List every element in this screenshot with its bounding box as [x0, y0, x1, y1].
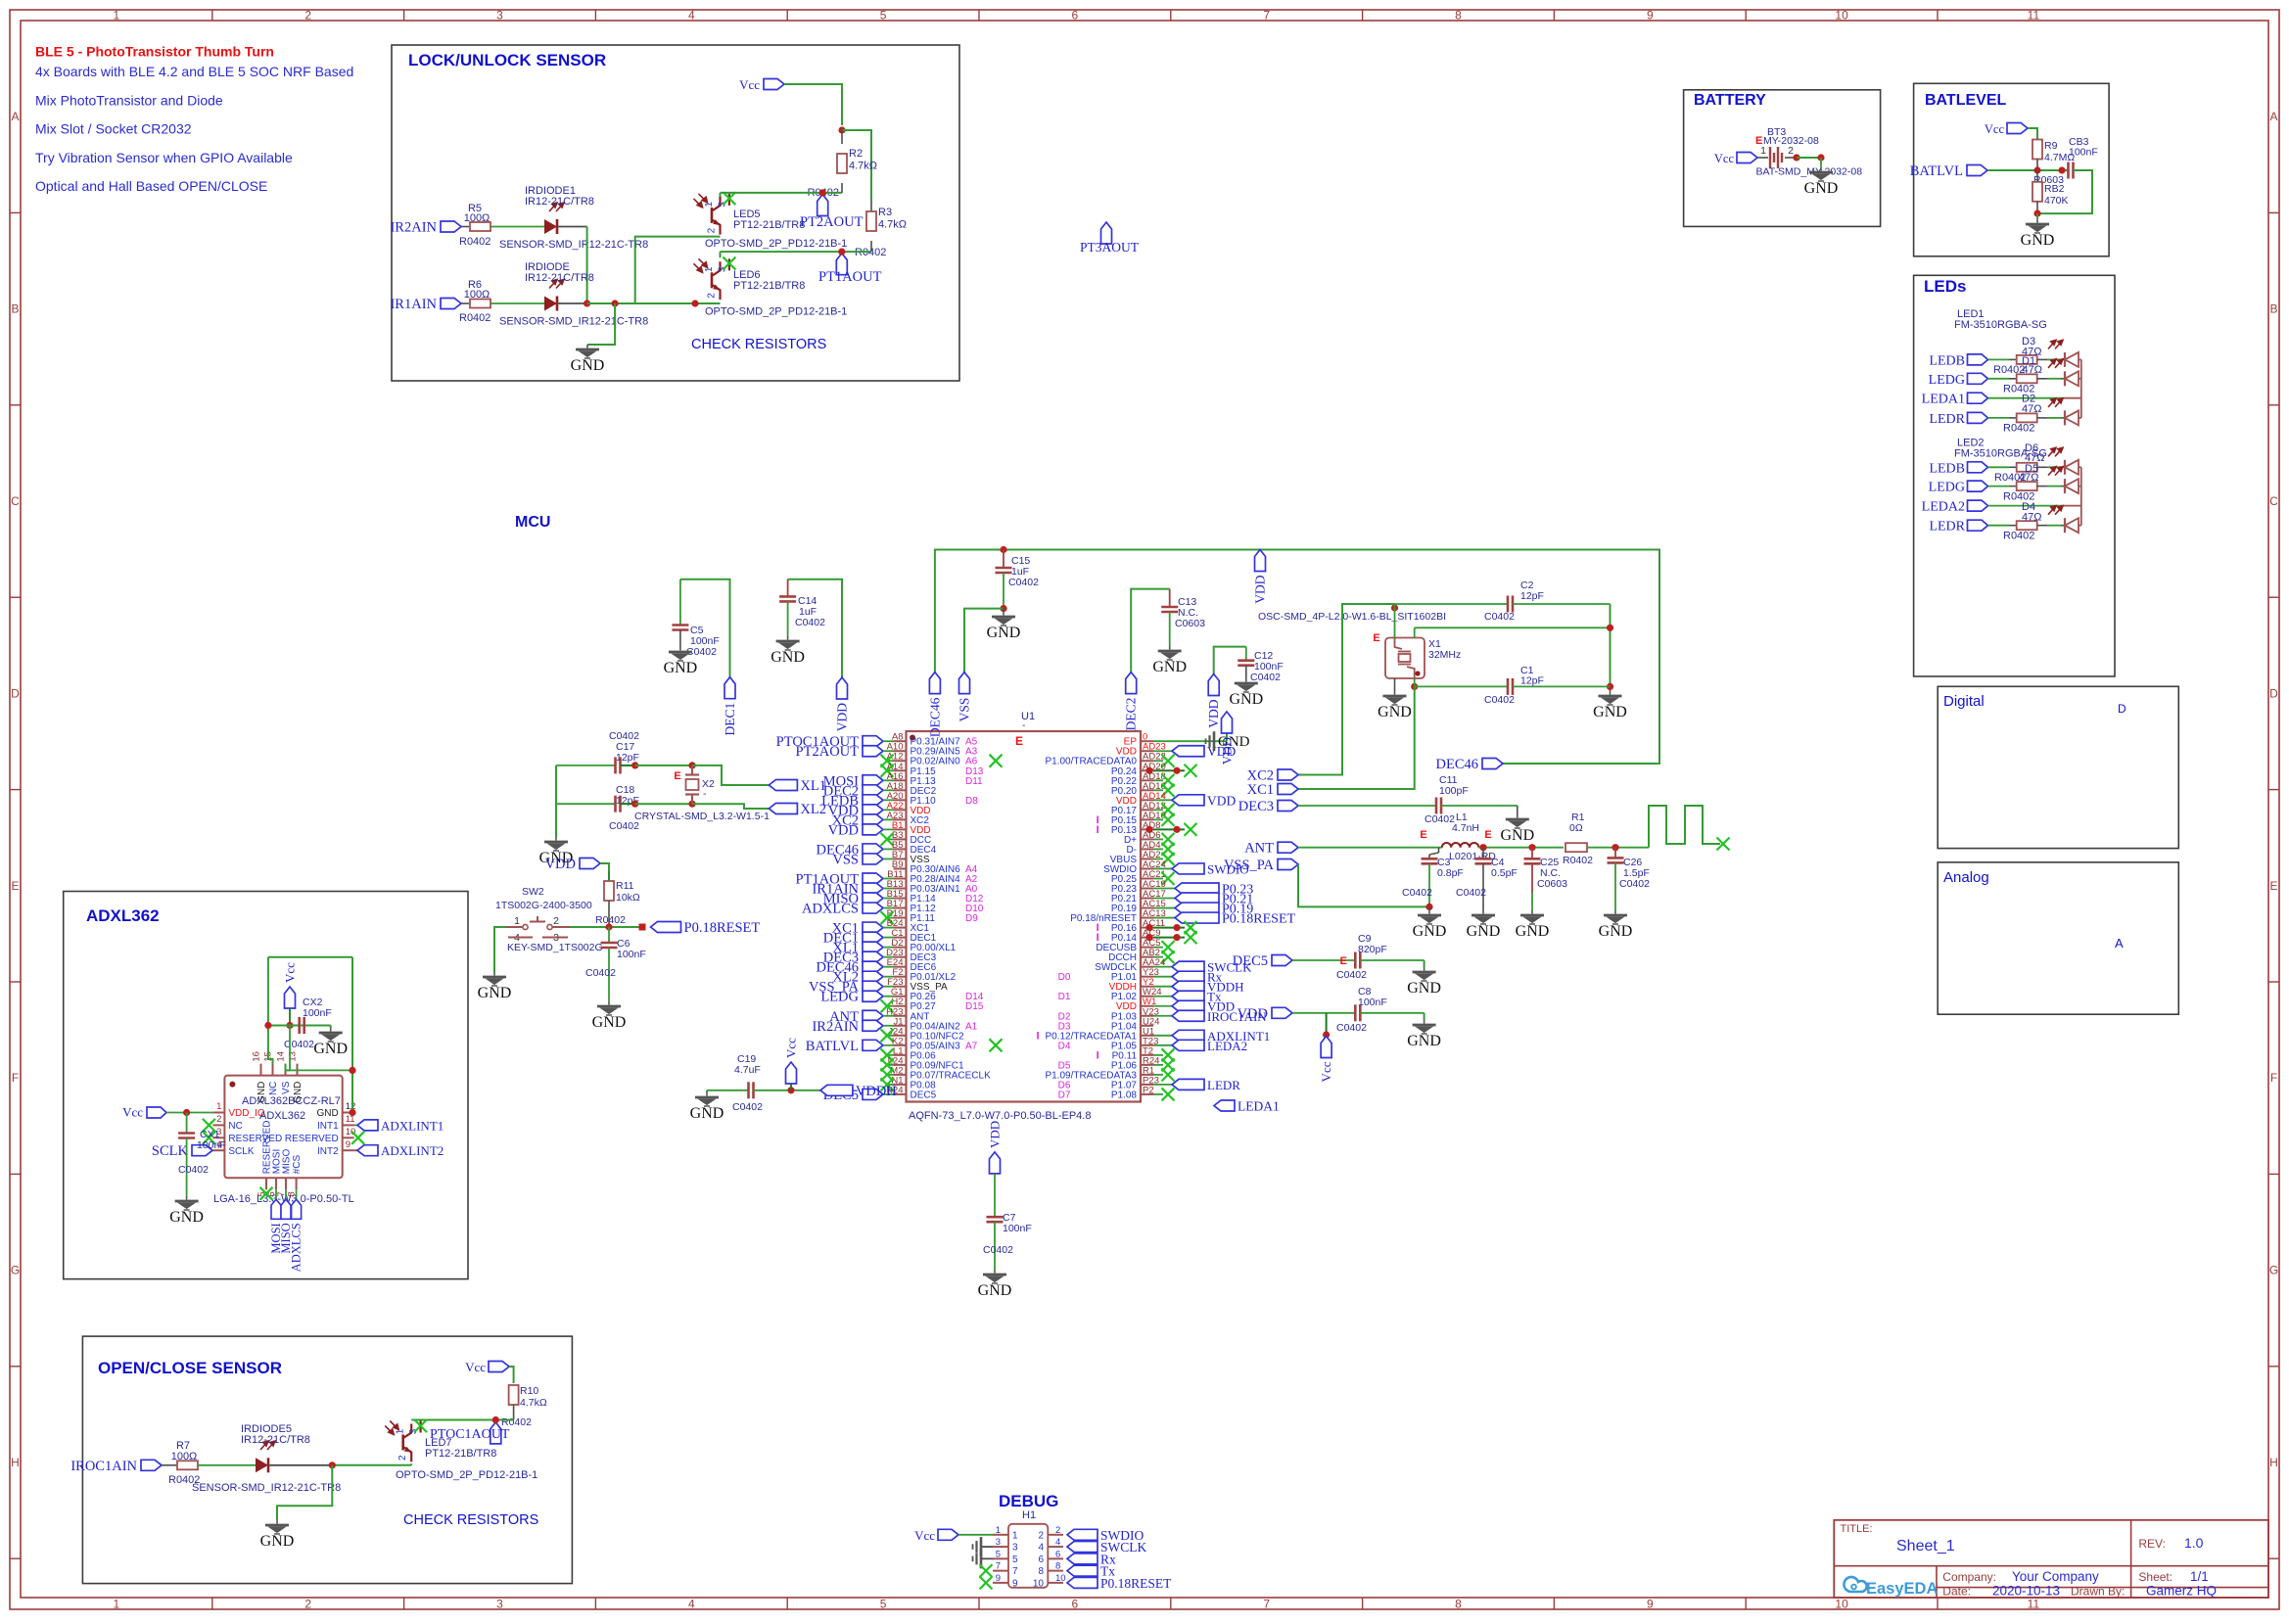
ground (C14)	[776, 636, 800, 650]
net LEDB flag	[863, 795, 883, 806]
net P0.19 flag	[1175, 903, 1219, 913]
svg-text:IR12-21C/TR8: IR12-21C/TR8	[241, 1434, 310, 1446]
svg-text:D: D	[2269, 686, 2278, 700]
svg-text:PT12-21B/TR8: PT12-21B/TR8	[733, 280, 805, 292]
svg-text:R0402: R0402	[459, 312, 490, 324]
ground (CX2)	[330, 1026, 332, 1029]
svg-text:VDDH: VDDH	[856, 1084, 897, 1099]
pin F2 P0.01/XL2 (left)	[894, 976, 907, 978]
svg-text:8: 8	[1038, 1566, 1044, 1577]
svg-text:11: 11	[2028, 1598, 2040, 1611]
pin 10 (H1 right)	[1048, 1582, 1063, 1584]
no-connect X	[887, 838, 894, 840]
pin AD8 P0.13 (right)	[1141, 828, 1153, 830]
svg-text:Gamerz HQ: Gamerz HQ	[2146, 1584, 2217, 1599]
svg-text:GND: GND	[293, 1082, 304, 1103]
svg-text:E: E	[2269, 879, 2277, 893]
pin C1 DEC1 (left)	[894, 937, 907, 939]
resistor R10 4.7k	[509, 1385, 519, 1405]
wire common cathode row	[557, 302, 587, 304]
svg-text:GND: GND	[987, 625, 1021, 641]
pin D2 P0.00/XL1 (left)	[894, 947, 907, 949]
svg-text:NC: NC	[268, 1082, 279, 1095]
svg-text:LEDR: LEDR	[1207, 1078, 1240, 1092]
net MOSI flag	[863, 775, 883, 786]
svg-text:VS: VS	[281, 1081, 292, 1094]
svg-text:A1: A1	[965, 1021, 978, 1032]
pin L24 P0.09/NFC1 (left)	[894, 1064, 907, 1066]
svg-text:P1.08: P1.08	[1111, 1090, 1138, 1100]
wire R6 to IRDIODE	[490, 302, 544, 304]
svg-text:LEDR: LEDR	[1929, 520, 1965, 534]
svg-text:4.7kΩ: 4.7kΩ	[849, 161, 877, 172]
net DEC46 flag	[863, 844, 883, 855]
svg-text:C0402: C0402	[795, 617, 825, 628]
net P0.21 flag	[1175, 893, 1219, 904]
wire VSS rail	[1000, 605, 1006, 612]
svg-text:2020-10-13: 2020-10-13	[1992, 1584, 2060, 1599]
wire LED5 collector to PT2AOUT/R2	[721, 192, 843, 194]
net XC2 flag	[863, 814, 883, 825]
capacitor C25 N.C.	[1531, 848, 1533, 859]
svg-text:Vcc: Vcc	[1319, 1061, 1333, 1082]
pin A10 P0.29/AIN5 (left)	[894, 750, 907, 752]
svg-text:100nF: 100nF	[303, 1007, 332, 1019]
resistor R6 100R	[461, 302, 469, 304]
svg-text:2: 2	[1038, 1530, 1044, 1541]
svg-text:ADXL362: ADXL362	[259, 1110, 305, 1122]
svg-text:0.5pF: 0.5pF	[1491, 867, 1518, 879]
capacitor C8 100nF	[1292, 1012, 1355, 1014]
junction dots	[1145, 934, 1152, 941]
svg-text:Try Vibration Sensor when GPIO: Try Vibration Sensor when GPIO Available	[35, 150, 293, 165]
resistor R7 100R	[162, 1464, 177, 1466]
svg-text:E: E	[1373, 632, 1379, 644]
svg-text:IR2AIN: IR2AIN	[390, 220, 437, 236]
pin B15 P1.14 (left)	[894, 898, 907, 900]
pin A16 P1.13 (left)	[894, 779, 907, 781]
pin B5 DEC4 (left)	[894, 848, 907, 850]
svg-text:G: G	[2269, 1264, 2278, 1277]
svg-text:R2: R2	[849, 148, 863, 160]
ground (osc pin3)	[1394, 678, 1396, 691]
pin B7 VSS (left)	[894, 858, 907, 859]
pin A23 XC2 (left)	[894, 818, 907, 820]
pin H2 P0.27 (left)	[894, 1005, 907, 1007]
pin AD12 P0.17 (right)	[1141, 809, 1153, 811]
svg-text:GND: GND	[1407, 980, 1441, 997]
svg-text:Your Company: Your Company	[2012, 1569, 2099, 1584]
inductor L1 4.7nH	[1442, 843, 1479, 848]
pin N24 DEC5 (left)	[894, 1093, 907, 1095]
no-connect X	[1162, 784, 1175, 797]
capacitor C5 100nF	[680, 580, 730, 677]
net DEC46 flag	[863, 961, 883, 972]
pin 5 (H1 left)	[993, 1557, 1008, 1559]
svg-text:XL1: XL1	[800, 778, 826, 794]
svg-text:4: 4	[1055, 1537, 1060, 1548]
svg-text:INT2: INT2	[317, 1146, 339, 1157]
pin 12 GND	[343, 1112, 354, 1114]
net VDD tower (C12)	[1208, 674, 1219, 696]
wire direct (no resistor)	[1988, 505, 2062, 507]
capacitor C19 4.7uF	[707, 1090, 749, 1091]
svg-text:4.7kΩ: 4.7kΩ	[878, 219, 907, 231]
wire R7 to IRDIODE5	[198, 1464, 256, 1466]
svg-text:47Ω: 47Ω	[2022, 403, 2041, 415]
svg-text:2: 2	[1788, 145, 1794, 157]
svg-text:SENSOR-SMD_IR12-21C-TR8: SENSOR-SMD_IR12-21C-TR8	[499, 239, 648, 251]
svg-text:C0603: C0603	[1537, 878, 1567, 890]
svg-text:C0402: C0402	[585, 967, 616, 979]
svg-text:4.7nH: 4.7nH	[1452, 822, 1479, 834]
capacitor C13 N.C.	[1131, 589, 1170, 673]
capacitor C6 100nF	[608, 927, 610, 943]
svg-text:D4: D4	[1058, 1041, 1071, 1051]
wire XC1 net	[1298, 686, 1415, 789]
net VDDH flag	[820, 1085, 853, 1095]
pin Y23 P1.01 (right)	[1141, 976, 1153, 978]
svg-text:4: 4	[688, 1598, 695, 1611]
svg-text:4.7uF: 4.7uF	[734, 1064, 761, 1076]
no-connect X	[887, 1064, 894, 1066]
svg-text:DEBUG: DEBUG	[999, 1492, 1058, 1510]
net PTOC1AOUT tower	[490, 1422, 501, 1444]
svg-text:Sheet:: Sheet:	[2138, 1570, 2172, 1584]
no-connect X (antenna)	[1717, 838, 1730, 851]
svg-text:10: 10	[346, 1127, 356, 1137]
pin A18 DEC2 (left)	[894, 789, 907, 791]
svg-text:IR12-21C/TR8: IR12-21C/TR8	[525, 272, 594, 284]
svg-text:VDD: VDD	[1206, 699, 1221, 727]
svg-text:1: 1	[704, 202, 715, 208]
pin 1 (H1 left)	[993, 1534, 1008, 1536]
ground (lock box)	[576, 345, 599, 358]
svg-text:OSC-SMD_4P-L2.0-W1.6-BL_SIT160: OSC-SMD_4P-L2.0-W1.6-BL_SIT1602BI	[1258, 611, 1446, 623]
net VSS_PA flag + wire	[1278, 859, 1298, 870]
wire to GND	[587, 303, 615, 345]
svg-text:ANT: ANT	[1244, 841, 1274, 857]
svg-text:DEC46: DEC46	[927, 697, 942, 737]
svg-text:E: E	[1015, 734, 1023, 748]
svg-text:1: 1	[996, 1525, 1001, 1536]
svg-text:9: 9	[346, 1139, 350, 1150]
power Vcc tower (C8)	[1321, 1037, 1331, 1058]
svg-text:H1: H1	[1022, 1509, 1036, 1521]
svg-text:VDD: VDD	[835, 703, 850, 731]
svg-text:INT1: INT1	[317, 1121, 339, 1132]
svg-text:GND: GND	[313, 1041, 348, 1057]
pin 15 NC (top)	[272, 1064, 274, 1076]
svg-text:IR12-21C/TR8: IR12-21C/TR8	[525, 196, 594, 208]
svg-text:I: I	[1037, 1030, 1040, 1042]
ground (H1 pins 3,5)	[981, 1546, 993, 1548]
svg-text:GND: GND	[1804, 180, 1839, 197]
BATTERY box	[1684, 90, 1881, 227]
svg-text:10: 10	[1835, 9, 1848, 23]
pin W1 VDD (right)	[1141, 1005, 1153, 1007]
ground (C11)	[1517, 806, 1518, 814]
svg-text:EasyEDA: EasyEDA	[1866, 1580, 1938, 1598]
svg-text:RESERVED: RESERVED	[285, 1134, 339, 1144]
svg-text:P0.18RESET: P0.18RESET	[1222, 912, 1296, 927]
pin U1 P0.12/TRACEDATA1 (right)	[1141, 1035, 1153, 1037]
wire XC2 net	[1298, 604, 1395, 775]
svg-text:1.0: 1.0	[2184, 1535, 2204, 1551]
svg-text:6: 6	[1072, 9, 1079, 23]
svg-text:SENSOR-SMD_IR12-21C-TR8: SENSOR-SMD_IR12-21C-TR8	[499, 316, 648, 328]
pin AD10 P0.15 (right)	[1141, 818, 1153, 820]
pin B3 DCC (left)	[894, 838, 907, 840]
net VDD flag	[1172, 746, 1204, 757]
pin 7 MISO (bottom)	[285, 1178, 287, 1189]
pin AC13 P0.18/nRESET (right)	[1141, 917, 1153, 919]
svg-text:3: 3	[496, 1598, 503, 1611]
net XL1 flag	[863, 942, 883, 952]
svg-text:ADXLINT1: ADXLINT1	[381, 1118, 444, 1133]
wire R10 to LED7	[411, 1419, 513, 1421]
net XC1 flag	[1278, 784, 1298, 795]
net IROC1AIN flag	[141, 1460, 162, 1470]
pin L1 P0.06 (left)	[894, 1054, 907, 1056]
svg-text:OPTO-SMD_2P_PD12-21B-1: OPTO-SMD_2P_PD12-21B-1	[705, 238, 847, 250]
no-connect X	[887, 769, 894, 771]
interior X P0.02	[990, 755, 1003, 767]
pin B13 P0.03/AIN1 (left)	[894, 888, 907, 890]
svg-text:H: H	[2269, 1456, 2278, 1469]
svg-text:F: F	[2270, 1071, 2277, 1085]
wire CB3 to RB2 bottom	[2037, 170, 2092, 213]
ground (crystal)	[544, 837, 568, 851]
net ADXLCS flag	[863, 903, 883, 913]
capacitor C11 100pF	[1298, 805, 1436, 807]
pin 14 VS (top)	[285, 1064, 287, 1076]
pin E24 DEC6 (left)	[894, 966, 907, 968]
svg-text:DEC46: DEC46	[1436, 757, 1479, 772]
net P0.18RESET flag	[1067, 1577, 1098, 1588]
svg-text:10: 10	[1055, 1573, 1066, 1584]
net XL1 flag	[769, 780, 797, 791]
svg-text:3: 3	[996, 1537, 1001, 1548]
svg-text:1: 1	[1760, 145, 1766, 157]
svg-text:2: 2	[707, 293, 718, 299]
svg-text:0.8pF: 0.8pF	[1437, 867, 1464, 879]
net Vcc flag (open/close)	[489, 1362, 509, 1372]
svg-text:E: E	[1340, 955, 1347, 967]
LOCK/UNLOCK SENSOR box	[392, 45, 959, 381]
wire SW2 left to GND	[494, 927, 506, 972]
svg-text:100pF: 100pF	[1439, 785, 1469, 797]
net VDD flag (R11)	[580, 858, 600, 869]
resistor R11 10k	[608, 871, 610, 881]
pin A22 VDD (left)	[894, 809, 907, 811]
ground (SW2)	[483, 972, 506, 986]
svg-text:A: A	[2115, 936, 2124, 951]
junction dots	[1145, 924, 1152, 931]
svg-text:C0402: C0402	[983, 1244, 1013, 1256]
net Tx flag	[1067, 1565, 1098, 1576]
ground (C6)	[597, 1001, 621, 1015]
svg-text:Vcc: Vcc	[1714, 152, 1735, 165]
interior X P0.05	[990, 1039, 1003, 1051]
svg-text:D8: D8	[965, 796, 978, 807]
no-connect X	[1162, 872, 1175, 885]
ground (battery)	[1809, 167, 1833, 181]
LED LED1 common rail	[2080, 359, 2082, 418]
pin AC21 P0.25 (right)	[1141, 877, 1153, 879]
capacitor C2 12pF	[1395, 603, 1509, 605]
svg-text:VSS_PA: VSS_PA	[1224, 858, 1275, 873]
pin J24 P0.10/NFC2 (left)	[894, 1035, 907, 1037]
power Vcc tower (C19)	[787, 1087, 794, 1093]
net LEDA1 flag	[1214, 1100, 1235, 1111]
no-connect X	[887, 1054, 894, 1056]
svg-text:GND: GND	[592, 1014, 627, 1031]
pin V23 P1.03 (right)	[1141, 1015, 1153, 1017]
svg-text:LOCK/UNLOCK SENSOR: LOCK/UNLOCK SENSOR	[408, 51, 606, 70]
pin AC9 P0.14 (right)	[1141, 937, 1153, 939]
net Vcc flag (lock box)	[764, 79, 784, 90]
svg-text:R0402: R0402	[2003, 531, 2034, 542]
pin 5 RESERVED (bottom)	[265, 1178, 267, 1189]
phototransistor LED6	[713, 261, 721, 275]
svg-text:ADXLCS: ADXLCS	[802, 902, 859, 917]
svg-text:GND: GND	[978, 1282, 1012, 1299]
svg-text:GND: GND	[1407, 1033, 1441, 1049]
pin 8 (H1 right)	[1048, 1570, 1063, 1572]
wire CX2 row	[268, 1025, 331, 1027]
svg-text:E: E	[1484, 829, 1491, 841]
svg-text:100nF: 100nF	[197, 1139, 226, 1151]
svg-text:IROC1AIN: IROC1AIN	[70, 1459, 137, 1474]
pin 2 NC	[212, 1124, 224, 1126]
net VDD flag	[863, 805, 883, 815]
no-connect X	[1162, 951, 1175, 963]
pin 4 (H1 right)	[1048, 1546, 1063, 1548]
junction dots	[1145, 767, 1152, 774]
pin A12 P0.02/AIN0 (left)	[894, 760, 907, 762]
svg-text:IR2AIN: IR2AIN	[812, 1019, 859, 1035]
svg-text:MCU: MCU	[515, 514, 550, 531]
pin AB2 DCCH (right)	[1141, 956, 1153, 958]
pin J1 P0.04/AIN2 (left)	[894, 1025, 907, 1027]
net VDD flag (C8 row)	[1272, 1007, 1292, 1018]
net MOSI tower (down)	[275, 1189, 277, 1199]
net ANT flag	[1278, 842, 1298, 853]
svg-text:2: 2	[1055, 1525, 1060, 1536]
capacitor CX1 100nF	[186, 1113, 188, 1134]
no-connect X	[1162, 774, 1175, 787]
header H1	[1008, 1524, 1048, 1588]
pin B24 XC1 (left)	[894, 927, 907, 929]
svg-text:14: 14	[276, 1051, 287, 1062]
capacitor C7 100nF	[994, 1174, 996, 1217]
net DEC5 flag	[863, 1089, 883, 1099]
svg-text:R3: R3	[878, 207, 892, 218]
svg-text:ADXLCS: ADXLCS	[290, 1223, 304, 1272]
svg-text:GND: GND	[1413, 923, 1447, 940]
svg-text:7: 7	[1263, 1598, 1270, 1611]
svg-text:E: E	[674, 770, 680, 782]
svg-text:REV:: REV:	[2138, 1537, 2166, 1551]
OPEN/CLOSE SENSOR box	[82, 1336, 572, 1584]
svg-text:XC1: XC1	[1247, 782, 1274, 798]
svg-text:G: G	[11, 1264, 20, 1277]
svg-text:PT3AOUT: PT3AOUT	[1080, 240, 1140, 255]
pin AC11 P0.16 (right)	[1141, 927, 1153, 929]
svg-text:BATLEVEL: BATLEVEL	[1925, 92, 2006, 109]
pin R1 P1.09/TRACEDATA3 (right)	[1141, 1074, 1153, 1076]
pin 3 RESERVED	[212, 1137, 224, 1138]
svg-text:R0402: R0402	[2003, 423, 2034, 435]
wire ANT row	[1298, 847, 1442, 849]
svg-text:47Ω: 47Ω	[2023, 364, 2042, 376]
svg-text:PT2AOUT: PT2AOUT	[800, 214, 864, 230]
svg-text:9: 9	[1647, 1598, 1654, 1611]
svg-text:7: 7	[1012, 1566, 1018, 1577]
net DEC3 flag	[863, 951, 883, 962]
net SWDIO flag	[1172, 863, 1204, 874]
svg-text:DEC1: DEC1	[723, 703, 737, 736]
wire Vcc to pin1	[166, 1112, 212, 1114]
capacitor CX2 100nF	[298, 1017, 301, 1034]
pin 13 GND (top)	[297, 1064, 299, 1076]
net LEDA2 flag	[1172, 1040, 1204, 1050]
svg-text:GND: GND	[1599, 923, 1633, 940]
svg-text:10: 10	[1835, 1598, 1848, 1611]
net PT2AOUT flag	[817, 195, 828, 216]
LEDs box	[1914, 275, 2115, 676]
svg-text:BLE 5 - PhotoTransistor Thumb: BLE 5 - PhotoTransistor Thumb Turn	[35, 44, 274, 60]
net DEC2 flag	[863, 785, 883, 796]
svg-text:6: 6	[1055, 1549, 1060, 1559]
svg-text:Mix Slot / Socket CR2032: Mix Slot / Socket CR2032	[35, 121, 192, 137]
svg-text:2: 2	[707, 227, 718, 233]
svg-text:Vcc: Vcc	[784, 1038, 799, 1058]
svg-text:GND: GND	[257, 1082, 267, 1103]
no-connect X	[1162, 833, 1175, 846]
no-connect X	[1162, 1088, 1175, 1100]
svg-text:D11: D11	[965, 776, 983, 787]
net SWCLK flag	[1172, 961, 1204, 972]
svg-text:ADXLINT2: ADXLINT2	[381, 1143, 444, 1158]
ADXL362 box	[64, 892, 468, 1279]
svg-text:4.7kΩ: 4.7kΩ	[520, 1397, 547, 1409]
ground (C19)	[706, 1090, 708, 1092]
svg-text:-: -	[703, 788, 707, 800]
svg-text:C0603: C0603	[1175, 618, 1205, 629]
pin AD22 P1.00/TRACEDATA0 (right)	[1141, 760, 1153, 762]
no-connect X	[1162, 843, 1175, 856]
svg-text:C0402: C0402	[732, 1101, 763, 1113]
net Tx flag	[1172, 991, 1204, 1001]
svg-text:Date:: Date:	[1942, 1585, 1971, 1599]
net VDD tower (C14)	[837, 677, 848, 699]
svg-text:470K: 470K	[2044, 195, 2069, 207]
accelerometer U2 ADXL362	[224, 1076, 342, 1179]
svg-text:C0402: C0402	[284, 1039, 314, 1050]
svg-text:C0402: C0402	[1250, 672, 1281, 683]
capacitor C26 1.5pF	[1614, 848, 1616, 858]
pin P2 P1.08 (right)	[1141, 1093, 1153, 1095]
net Vcc flag (debug)	[938, 1529, 958, 1540]
ground (C4)	[1471, 910, 1495, 924]
pin AD14 VDD (right)	[1141, 799, 1153, 801]
ground (EP)	[1206, 731, 1215, 751]
pin W24 P1.02 (right)	[1141, 996, 1153, 998]
wire pin12 to rail	[352, 1112, 354, 1114]
svg-text:1: 1	[704, 266, 715, 272]
